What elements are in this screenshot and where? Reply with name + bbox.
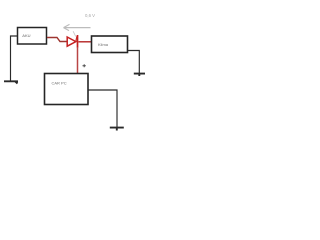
CAR PC box xyxy=(45,74,89,105)
svg-text:CAR PC: CAR PC xyxy=(52,80,67,85)
wire Klima to ground right xyxy=(128,51,140,75)
diode apex overshoot stroke xyxy=(76,36,77,41)
wire battery to diode (red, with jog) xyxy=(47,38,67,42)
svg-text:AKU: AKU xyxy=(22,33,30,38)
Klima box xyxy=(92,36,128,53)
svg-text:Klima: Klima xyxy=(98,42,109,47)
wire CAR PC to ground bottom xyxy=(89,90,118,128)
diode D1 (red) xyxy=(67,37,76,46)
ground right xyxy=(134,74,145,76)
stray pencil stroke above diode xyxy=(73,31,76,36)
svg-text:0,6 V: 0,6 V xyxy=(85,13,95,18)
battery box AKU xyxy=(18,28,47,45)
wire battery left to ground xyxy=(11,36,18,81)
diode cathode bar xyxy=(77,35,79,48)
ground left xyxy=(4,81,18,83)
wire diode to Klima box (red) xyxy=(79,41,92,43)
ground bottom xyxy=(110,128,124,131)
plus polarity mark xyxy=(83,64,86,67)
wire node to CAR PC (red vertical) xyxy=(77,47,79,74)
current direction arrow xyxy=(64,24,91,30)
